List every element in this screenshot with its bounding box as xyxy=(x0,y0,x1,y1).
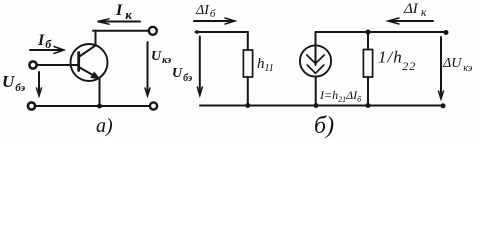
svg-text:ΔIк: ΔIк xyxy=(403,1,427,19)
node: base input terminal of circuit a xyxy=(29,61,36,68)
current source arrow inside xyxy=(315,46,317,65)
svg-text:Uбэ: Uбэ xyxy=(2,72,26,94)
wire 1/h22 branch bottom xyxy=(367,77,369,106)
current arrow Ib xyxy=(30,49,62,51)
node: top rail right end dot xyxy=(444,30,449,35)
node: current source bottom junction dot xyxy=(314,103,319,108)
wire current source top xyxy=(315,32,317,46)
wire collector top rail xyxy=(93,30,149,32)
svg-text:ΔIб: ΔIб xyxy=(195,3,216,20)
svg-text:б): б) xyxy=(314,113,334,139)
voltage arrow Ube xyxy=(38,72,40,94)
voltage arrow Ube circuit b xyxy=(199,37,201,94)
voltage arrow delta-Uke xyxy=(440,37,442,97)
current arrow delta-Ib xyxy=(194,20,233,22)
resistor h11 xyxy=(243,50,252,77)
transistor VT1 emitter lead with arrow xyxy=(79,67,99,79)
svg-text:I=h21ΔIб: I=h21ΔIб xyxy=(319,88,362,104)
svg-text:Iб: Iб xyxy=(37,32,52,51)
svg-text:а): а) xyxy=(96,115,113,137)
transistor VT1 collector lead xyxy=(79,31,96,58)
wire bottom rail circuit b xyxy=(200,105,444,107)
wire h11 branch bottom xyxy=(247,77,249,106)
svg-text:Uбэ: Uбэ xyxy=(172,66,192,84)
voltage arrow Uke xyxy=(147,42,149,94)
current arrow delta-Ik xyxy=(390,20,433,22)
resistor 1/h22 xyxy=(363,50,372,78)
node: h11 bottom junction dot xyxy=(245,103,250,108)
wire emitter down to ground rail xyxy=(99,79,101,106)
node: 1/h22 bottom junction dot xyxy=(366,103,371,108)
wire bottom rail circuit a xyxy=(36,105,150,107)
wire base lead xyxy=(38,64,80,66)
svg-text:Uкэ: Uкэ xyxy=(151,49,171,66)
wire top rail right segment circuit b xyxy=(316,31,447,33)
current arrow Ik xyxy=(99,21,140,23)
node: bottom-left terminal xyxy=(28,102,35,109)
wire h11 branch top xyxy=(247,32,249,50)
wire current source bottom xyxy=(315,77,317,106)
node: bottom rail right end dot xyxy=(441,103,446,108)
node: 1/h22 top junction dot xyxy=(366,30,371,35)
node: emitter junction dot xyxy=(97,104,102,109)
svg-text:h11: h11 xyxy=(257,56,274,74)
node: collector output terminal xyxy=(149,27,157,35)
transistor VT1 circle xyxy=(71,44,108,81)
svg-text:ΔUкэ: ΔUкэ xyxy=(442,56,473,74)
wire top rail left segment circuit b xyxy=(196,31,249,33)
current source I=h21*dIb circle xyxy=(300,45,331,76)
svg-text:Iк: Iк xyxy=(115,2,132,22)
svg-text:1/h22: 1/h22 xyxy=(378,48,416,74)
transistor VT1 base bar xyxy=(77,53,80,71)
wire 1/h22 branch top xyxy=(367,32,369,50)
node: bottom-right terminal xyxy=(150,102,157,109)
